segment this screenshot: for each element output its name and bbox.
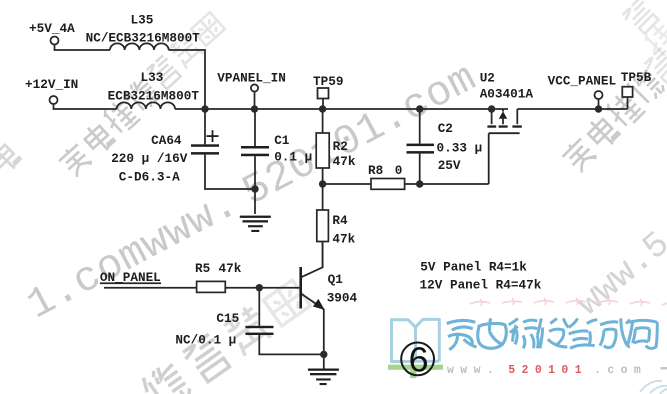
resistor R4 <box>317 210 329 242</box>
wire U2 gate drop <box>488 133 490 184</box>
wire rail right of U2 <box>517 108 627 110</box>
wire L35 to rail <box>169 50 205 109</box>
svg-text:220 µ /16V: 220 µ /16V <box>111 151 188 166</box>
svg-text:U2: U2 <box>480 71 495 86</box>
mosfet U2 drain pin <box>516 109 518 124</box>
junction rail/VCC_PANEL <box>595 105 602 112</box>
junction rail/VPANEL_IN <box>251 105 258 112</box>
wire R2 bottom to node <box>322 168 324 184</box>
mosfet U2 contact bars <box>487 125 496 127</box>
svg-text:R5: R5 <box>195 261 210 276</box>
svg-text:www.5: www.5 <box>569 224 667 325</box>
resistor R5 <box>197 281 226 292</box>
capacitor C2 plates <box>407 144 435 147</box>
resistor R2 <box>316 133 329 168</box>
faint corner watermark fragments <box>0 139 23 176</box>
svg-text:C1: C1 <box>274 133 290 148</box>
wire R8 right to U2 gate <box>405 183 489 185</box>
svg-text:R2: R2 <box>333 139 348 154</box>
wire rail to C2 top <box>419 109 421 144</box>
pink sliver of another logo row <box>470 298 667 307</box>
junction emitter/C15/gnd <box>320 351 327 358</box>
junction rail/C2 <box>416 105 423 112</box>
svg-text:6: 6 <box>408 342 430 383</box>
CA64 plus sign <box>207 135 219 137</box>
terminal +5V_4A <box>51 37 59 45</box>
svg-text:R8: R8 <box>368 163 383 178</box>
ground G2 (under Q1) <box>308 369 339 371</box>
svg-text:0.33 µ: 0.33 µ <box>437 141 483 156</box>
wire rail to R2 top <box>322 109 324 133</box>
logo book icon <box>392 319 440 361</box>
svg-text:12V Panel R4=47k: 12V Panel R4=47k <box>420 278 542 293</box>
svg-text:+12V_IN: +12V_IN <box>25 77 78 92</box>
wire 5V to L35 <box>55 45 111 51</box>
logo circled 6 <box>401 343 434 376</box>
ground G1 (under C1) <box>240 216 271 218</box>
resistor R8 <box>371 179 405 190</box>
faint corner squiggle bottom-right <box>640 381 667 394</box>
svg-text:Q1: Q1 <box>328 272 344 287</box>
capacitor C15 plates <box>245 326 273 328</box>
svg-text:ON_PANEL: ON_PANEL <box>100 270 161 285</box>
testpoint TP5B <box>622 87 632 97</box>
wire 12V to L33 <box>54 104 117 109</box>
net ON_PANEL underline + wire <box>100 282 161 284</box>
svg-text:L33: L33 <box>141 70 164 85</box>
svg-text:NC/ECB3216M800T: NC/ECB3216M800T <box>86 30 201 45</box>
svg-text:C-D6.3-A: C-D6.3-A <box>119 170 180 185</box>
transistor Q1 collector <box>301 242 323 278</box>
junction rail/L35 <box>201 105 208 112</box>
wire emitter to ground <box>323 354 325 368</box>
mosfet U2 body diode <box>499 111 507 119</box>
svg-text:VCC_PANEL: VCC_PANEL <box>548 73 617 88</box>
svg-text:C15: C15 <box>216 311 239 326</box>
inductor L33 <box>117 102 175 109</box>
transistor Q1 emitter <box>301 293 324 309</box>
watermark tile TL: pseudo 家电维修资料网 diagonal <box>57 141 94 178</box>
inductor L35 <box>110 43 169 50</box>
svg-text:R4: R4 <box>332 213 348 228</box>
logo script text (blue) <box>447 318 658 349</box>
wire R4 bottom to Q1 collector <box>322 242 324 268</box>
mosfet U2 body-diode lead <box>502 109 504 124</box>
junction rail/TP59/R2 <box>319 105 326 112</box>
junction R5/C15/base <box>256 284 263 291</box>
wire C15 bottom to emitter node <box>259 335 323 354</box>
junction C1/CA64/gnd <box>251 185 258 192</box>
svg-text:0: 0 <box>395 163 403 178</box>
wire node to R4 top <box>322 184 324 210</box>
mosfet U2 gate bar <box>489 132 520 134</box>
capacitor plates & bars (filled) <box>191 111 522 385</box>
watermark bottom partial kanji <box>139 360 193 394</box>
trailing dash after .com <box>661 367 667 369</box>
junction C2/gate wire <box>416 180 423 187</box>
svg-text:5V Panel R4=1k: 5V Panel R4=1k <box>420 260 527 275</box>
wire main rail <box>175 108 508 110</box>
wire emitter down <box>323 309 325 354</box>
testpoint TP59 <box>318 88 329 99</box>
node VPANEL_IN <box>251 84 258 91</box>
svg-text:NC/0.1 µ: NC/0.1 µ <box>175 333 236 348</box>
capacitor C1 plates <box>241 146 269 149</box>
transistor Q1 emitter arrow <box>313 299 325 310</box>
svg-text:ECB3216M800T: ECB3216M800T <box>108 89 200 104</box>
junction R2/R4/R8 <box>319 180 326 187</box>
wire node to C15 top <box>258 288 260 326</box>
wire R5 to Q1 base <box>225 287 299 289</box>
logo green stub <box>410 370 416 378</box>
mosfet U2 source pin <box>491 109 493 124</box>
wire C1 bottom to ground <box>254 156 256 214</box>
svg-text:+5V_4A: +5V_4A <box>29 21 75 36</box>
node VCC_PANEL <box>595 91 603 99</box>
svg-text:VPANEL_IN: VPANEL_IN <box>217 71 286 86</box>
svg-text:0.1 µ: 0.1 µ <box>274 149 312 164</box>
svg-text:CA64: CA64 <box>151 133 182 148</box>
logo green underline <box>388 365 443 370</box>
svg-text:47k: 47k <box>333 154 356 169</box>
transistor Q1 base bar <box>299 267 302 309</box>
svg-text:TP5B: TP5B <box>621 70 652 85</box>
watermark right: pseudo 家电维修 diagonal <box>560 136 599 175</box>
svg-text:TP59: TP59 <box>313 74 343 89</box>
svg-text:3904: 3904 <box>327 291 358 306</box>
wire C2 bottom to gate wire <box>419 154 421 184</box>
wire CA64 bottom to C1 bottom <box>205 155 255 189</box>
svg-text:25V: 25V <box>438 158 461 173</box>
svg-text:A03401A: A03401A <box>480 87 534 102</box>
wire node to R8 left <box>323 183 371 185</box>
terminal +12V_IN <box>50 96 58 104</box>
svg-text:47k: 47k <box>219 261 242 276</box>
svg-text:www.520101.com: www.520101.com <box>447 364 647 377</box>
junction rail/U2 source <box>488 105 495 112</box>
wire rail to CA64 top <box>204 109 206 144</box>
wire rail to C1 top <box>254 109 256 146</box>
svg-text:L35: L35 <box>131 13 154 28</box>
svg-text:C2: C2 <box>438 121 453 136</box>
capacitor CA64 plates <box>191 144 219 147</box>
svg-text:47k: 47k <box>332 231 355 246</box>
